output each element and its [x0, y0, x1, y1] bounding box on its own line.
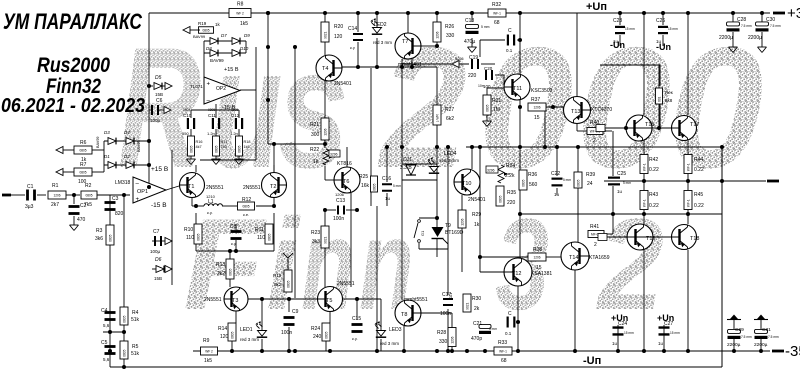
- svg-text:2N5551: 2N5551: [206, 185, 224, 191]
- svg-text:R1: R1: [52, 183, 59, 189]
- svg-text:+Uп: +Uп: [586, 1, 607, 13]
- svg-text:R19: R19: [198, 21, 207, 26]
- svg-text:0805: 0805: [324, 331, 328, 338]
- svg-text:5,6: 5,6: [103, 323, 110, 328]
- svg-text:15: 15: [536, 265, 542, 271]
- svg-text:R5: R5: [132, 344, 139, 350]
- svg-text:D4: D4: [124, 130, 130, 135]
- svg-text:15: 15: [534, 115, 540, 121]
- svg-text:WF-1: WF-1: [493, 12, 501, 16]
- svg-text:L-WR: L-WR: [435, 113, 439, 122]
- svg-text:0805: 0805: [122, 315, 126, 322]
- svg-text:Rек: Rек: [665, 90, 673, 95]
- svg-text:5 mm: 5 mm: [623, 181, 631, 185]
- svg-text:2k: 2k: [474, 306, 480, 312]
- svg-text:2200µ: 2200µ: [754, 342, 768, 348]
- svg-text:2N5401: 2N5401: [468, 197, 486, 203]
- svg-text:1u: 1u: [617, 189, 623, 194]
- svg-text:2k7: 2k7: [51, 202, 59, 208]
- svg-text:KSA1381: KSA1381: [531, 271, 552, 277]
- svg-text:750: 750: [221, 145, 227, 149]
- svg-text:WF-1: WF-1: [686, 163, 690, 171]
- svg-text:i: i: [266, 192, 301, 337]
- svg-text:OP1: OP1: [137, 189, 148, 195]
- svg-text:D7: D7: [221, 33, 227, 38]
- svg-text:300: 300: [311, 132, 320, 138]
- svg-text:7.5 mm: 7.5 mm: [741, 24, 752, 28]
- svg-text:2k2: 2k2: [217, 271, 225, 277]
- svg-text:C23: C23: [613, 18, 622, 24]
- svg-text:T6: T6: [343, 179, 349, 185]
- svg-text:0805: 0805: [228, 268, 232, 275]
- svg-text:red 3 mm: red 3 mm: [373, 40, 392, 45]
- svg-text:1206: 1206: [533, 256, 540, 260]
- svg-text:WF-1: WF-1: [642, 163, 646, 171]
- svg-text:0805: 0805: [521, 179, 525, 186]
- svg-text:R33: R33: [498, 340, 507, 346]
- svg-text:6k2: 6k2: [446, 116, 454, 122]
- svg-text:-15 В: -15 В: [151, 202, 167, 209]
- svg-text:T5: T5: [326, 298, 332, 304]
- svg-text:R43: R43: [649, 192, 658, 198]
- svg-text:D6: D6: [155, 257, 162, 263]
- svg-text:R42: R42: [649, 157, 658, 163]
- svg-text:T12: T12: [512, 271, 521, 277]
- svg-text:1206: 1206: [435, 31, 439, 38]
- svg-text:-Uп: -Uп: [583, 355, 601, 367]
- svg-text:R41: R41: [590, 224, 599, 230]
- svg-text:T13: T13: [571, 109, 580, 115]
- svg-text:0805: 0805: [576, 179, 580, 186]
- svg-text:WF 2: WF 2: [205, 350, 213, 354]
- svg-text:R3: R3: [96, 228, 103, 234]
- svg-text:0805: 0805: [189, 145, 193, 152]
- svg-text:D10: D10: [240, 46, 249, 51]
- svg-text:C29: C29: [735, 327, 744, 333]
- svg-text:5 mm: 5 mm: [481, 25, 490, 29]
- svg-text:1k: 1k: [474, 222, 480, 228]
- svg-text:1206: 1206: [53, 194, 60, 198]
- svg-text:C1: C1: [27, 184, 34, 190]
- svg-text:2N5551: 2N5551: [337, 281, 355, 287]
- svg-text:120: 120: [220, 334, 229, 340]
- svg-text:10н: 10н: [478, 84, 484, 88]
- svg-text:C31: C31: [762, 327, 771, 333]
- svg-text:KTC4370: KTC4370: [591, 107, 612, 113]
- svg-text:C13: C13: [336, 198, 345, 204]
- svg-text:R26: R26: [445, 24, 454, 30]
- svg-text:550: 550: [182, 131, 189, 136]
- svg-text:100n: 100n: [281, 330, 292, 336]
- svg-text:C18: C18: [465, 18, 474, 24]
- svg-text:5,6: 5,6: [103, 357, 110, 362]
- svg-text:R18: R18: [244, 140, 251, 144]
- svg-text:0805: 0805: [267, 233, 271, 240]
- svg-text:100n: 100n: [440, 311, 451, 317]
- svg-text:WF-1: WF-1: [686, 199, 690, 207]
- svg-text:D2: D2: [124, 154, 130, 159]
- svg-text:к.у: к.у: [231, 241, 236, 246]
- svg-text:R17: R17: [221, 140, 228, 144]
- svg-text:0.1: 0.1: [505, 331, 512, 336]
- svg-text:R15: R15: [273, 273, 282, 278]
- svg-text:T7: T7: [402, 39, 408, 45]
- svg-text:C4: C4: [101, 308, 108, 314]
- svg-text:R16: R16: [196, 140, 203, 144]
- svg-text:1206: 1206: [335, 192, 345, 197]
- svg-text:560: 560: [529, 182, 538, 188]
- svg-text:C15: C15: [352, 316, 361, 322]
- svg-text:0805: 0805: [372, 183, 376, 190]
- svg-text:C21: C21: [473, 321, 482, 327]
- svg-text:1210: 1210: [206, 194, 216, 199]
- svg-text:R11: R11: [255, 227, 264, 233]
- svg-text:TL071: TL071: [190, 84, 203, 89]
- svg-text:470: 470: [77, 217, 86, 223]
- svg-text:G1: G1: [420, 230, 425, 236]
- svg-text:15 mm: 15 mm: [624, 331, 634, 335]
- svg-text:0805: 0805: [214, 145, 218, 152]
- svg-text:R39: R39: [586, 172, 595, 178]
- svg-text:C12: C12: [231, 113, 240, 118]
- svg-text:0805: 0805: [237, 145, 241, 152]
- svg-text:к.у.: к.у.: [352, 336, 358, 341]
- svg-text:C3: C3: [112, 196, 119, 202]
- svg-text:801: 801: [657, 96, 661, 102]
- svg-text:9021: 9021: [323, 236, 327, 243]
- svg-text:T9: T9: [445, 223, 451, 229]
- svg-text:C10: C10: [183, 113, 192, 118]
- svg-text:R6: R6: [80, 140, 87, 146]
- svg-text:C24: C24: [618, 321, 627, 327]
- svg-text:R4: R4: [132, 310, 139, 316]
- svg-text:24: 24: [587, 181, 593, 187]
- svg-text:C7: C7: [153, 229, 160, 235]
- svg-text:15 mm: 15 mm: [625, 27, 635, 31]
- svg-text:3µ3: 3µ3: [25, 204, 34, 210]
- svg-text:0805: 0805: [286, 280, 290, 287]
- svg-text:4k7: 4k7: [196, 145, 202, 149]
- svg-text:R35: R35: [507, 190, 516, 196]
- svg-text:110: 110: [257, 235, 265, 241]
- svg-text:5 mm: 5 mm: [489, 327, 497, 331]
- svg-text:0805: 0805: [85, 194, 92, 198]
- svg-text:1206: 1206: [460, 218, 464, 225]
- svg-text:9021: 9021: [449, 293, 453, 300]
- svg-text:0805: 0805: [79, 171, 86, 175]
- svg-text:C9: C9: [292, 309, 299, 315]
- svg-text:к.у.: к.у.: [207, 210, 213, 215]
- svg-text:R44: R44: [694, 157, 703, 163]
- svg-text:3.3 В: 3.3 В: [400, 165, 412, 171]
- svg-text:3296: 3296: [330, 153, 338, 157]
- svg-text:R14: R14: [218, 326, 227, 332]
- svg-text:R34: R34: [506, 163, 515, 169]
- svg-text:KSC3503: KSC3503: [531, 88, 553, 94]
- svg-text:R38: R38: [533, 247, 542, 253]
- svg-text:R7: R7: [80, 162, 87, 168]
- svg-text:-Un: -Un: [610, 40, 625, 50]
- svg-text:820: 820: [115, 211, 124, 217]
- svg-text:2N5551: 2N5551: [204, 297, 222, 303]
- svg-text:470µ: 470µ: [464, 39, 475, 45]
- svg-text:100: 100: [78, 179, 87, 185]
- svg-text:R21: R21: [310, 122, 319, 128]
- svg-text:LED3: LED3: [389, 327, 402, 333]
- svg-text:BAV99: BAV99: [210, 58, 224, 63]
- svg-text:220: 220: [468, 73, 477, 79]
- svg-text:OP2: OP2: [216, 86, 226, 92]
- svg-text:15B: 15B: [155, 92, 163, 97]
- svg-text:1u: 1u: [658, 341, 664, 346]
- svg-text:1u: 1u: [612, 341, 618, 346]
- svg-text:R12: R12: [242, 197, 251, 203]
- svg-text:7.5 mm: 7.5 mm: [768, 335, 779, 339]
- svg-text:T2: T2: [270, 184, 276, 190]
- svg-text:120: 120: [334, 34, 343, 40]
- svg-text:WF-1: WF-1: [499, 350, 507, 354]
- svg-text:9021: 9021: [465, 302, 469, 309]
- svg-text:R36: R36: [528, 172, 537, 178]
- svg-text:3296: 3296: [487, 169, 495, 173]
- svg-text:C5: C5: [101, 340, 108, 346]
- svg-text:7.5 mm: 7.5 mm: [741, 335, 752, 339]
- svg-text:+: +: [136, 197, 140, 203]
- svg-text:1k5: 1k5: [204, 358, 212, 364]
- svg-text:C26: C26: [656, 18, 665, 24]
- svg-text:C2: C2: [80, 203, 87, 209]
- svg-text:220: 220: [507, 200, 516, 206]
- svg-text:1k: 1k: [215, 22, 221, 27]
- svg-text:C30: C30: [766, 17, 775, 23]
- svg-text:C: C: [508, 28, 512, 34]
- svg-text:16k: 16k: [361, 183, 370, 189]
- svg-text:WF-1: WF-1: [642, 199, 646, 207]
- svg-text:C25: C25: [617, 171, 626, 177]
- svg-text:9021: 9021: [323, 31, 327, 38]
- svg-text:T10: T10: [462, 181, 471, 187]
- svg-text:C20: C20: [484, 66, 493, 71]
- svg-text:R23: R23: [311, 230, 320, 236]
- svg-text:0.1: 0.1: [506, 48, 513, 53]
- svg-text:C28: C28: [737, 17, 746, 23]
- svg-text:D8: D8: [206, 46, 212, 51]
- svg-text:68: 68: [494, 20, 500, 26]
- svg-text:R25: R25: [359, 174, 368, 180]
- svg-text:R32: R32: [492, 2, 501, 8]
- svg-text:1k5: 1k5: [240, 21, 248, 27]
- svg-text:15 mm: 15 mm: [668, 27, 678, 31]
- svg-text:2N5551: 2N5551: [243, 185, 261, 191]
- svg-text:n: n: [301, 191, 355, 337]
- svg-text:0805: 0805: [231, 108, 238, 112]
- svg-text:УМ ПАРАЛЛАКС: УМ ПАРАЛЛАКС: [3, 9, 143, 34]
- svg-text:T17: T17: [690, 122, 699, 128]
- svg-text:L1: L1: [208, 199, 214, 205]
- svg-text:C14: C14: [348, 26, 357, 32]
- svg-text:D1: D1: [104, 154, 110, 159]
- svg-text:C: C: [508, 311, 512, 317]
- svg-text:⇅206: ⇅206: [455, 57, 464, 61]
- svg-text:-Un: -Un: [656, 42, 671, 52]
- svg-text:R9: R9: [203, 338, 210, 344]
- svg-text:2.2k: 2.2k: [505, 173, 515, 179]
- svg-text:+15 В: +15 В: [151, 166, 168, 173]
- svg-text:100µ: 100µ: [150, 118, 161, 123]
- svg-text:0.22: 0.22: [694, 203, 704, 209]
- svg-text:C19: C19: [469, 55, 478, 61]
- svg-text:R45: R45: [694, 192, 703, 198]
- svg-text:0805: 0805: [79, 149, 86, 153]
- svg-text:240: 240: [313, 334, 322, 340]
- svg-text:R27: R27: [445, 107, 454, 113]
- svg-text:68: 68: [501, 358, 507, 364]
- svg-text:R30: R30: [472, 296, 481, 302]
- svg-text:0.22: 0.22: [649, 203, 659, 209]
- svg-text:330: 330: [439, 339, 448, 345]
- svg-text:D3: D3: [104, 130, 110, 135]
- svg-text:0805: 0805: [108, 234, 112, 241]
- svg-text:mmbt5551: mmbt5551: [404, 297, 428, 303]
- svg-text:0805: 0805: [242, 205, 249, 209]
- svg-text:+: +: [207, 82, 211, 88]
- svg-text:T1: T1: [188, 184, 194, 190]
- svg-text:+15 В: +15 В: [224, 67, 239, 73]
- svg-text:T14: T14: [569, 255, 578, 261]
- svg-text:R37: R37: [531, 97, 540, 103]
- svg-text:D11: D11: [403, 157, 412, 163]
- svg-text:R20: R20: [334, 24, 343, 30]
- svg-text:C6: C6: [156, 98, 163, 104]
- svg-text:51k: 51k: [131, 317, 140, 323]
- svg-text:T18: T18: [690, 236, 699, 242]
- svg-text:0805: 0805: [122, 349, 126, 356]
- svg-text:Rus2000: Rus2000: [37, 54, 110, 77]
- svg-text:3k6: 3k6: [95, 236, 103, 242]
- svg-text:06.2021 - 02.2023: 06.2021 - 02.2023: [1, 95, 145, 117]
- svg-text:T8: T8: [401, 312, 407, 318]
- svg-text:5 mm: 5 mm: [563, 178, 571, 182]
- svg-text:0805: 0805: [196, 233, 200, 240]
- svg-text:15 mm: 15 mm: [670, 331, 680, 335]
- svg-text:100µ: 100µ: [150, 249, 161, 254]
- svg-text:BAV99: BAV99: [193, 34, 206, 39]
- svg-text:R10: R10: [184, 227, 193, 233]
- svg-text:к.у: к.у: [350, 45, 355, 50]
- svg-text:2: 2: [594, 242, 597, 248]
- svg-text:1k5: 1k5: [244, 145, 250, 149]
- svg-text:C27: C27: [664, 321, 673, 327]
- svg-text:2: 2: [593, 138, 596, 144]
- svg-text:red 3 mm: red 3 mm: [380, 341, 399, 346]
- svg-text:0805: 0805: [498, 195, 502, 202]
- svg-text:3k3: 3k3: [312, 239, 320, 245]
- svg-text:KT816: KT816: [337, 161, 352, 167]
- svg-text:BT169D: BT169D: [445, 230, 464, 236]
- svg-text:BAV99: BAV99: [137, 140, 141, 152]
- svg-text:T15: T15: [645, 122, 654, 128]
- svg-text:R24: R24: [311, 326, 320, 332]
- svg-text:T4: T4: [322, 66, 328, 72]
- svg-text:0805: 0805: [208, 108, 215, 112]
- svg-text:-35: -35: [785, 343, 800, 360]
- svg-text:7.5 mm: 7.5 mm: [770, 24, 781, 28]
- svg-text:1.2н: 1.2н: [230, 131, 238, 136]
- svg-text:2200µ: 2200µ: [727, 342, 741, 348]
- svg-text:R31: R31: [492, 98, 501, 104]
- svg-text:0.22: 0.22: [649, 167, 659, 173]
- svg-text:2200µ: 2200µ: [748, 35, 762, 41]
- svg-text:BAV99: BAV99: [96, 136, 100, 148]
- svg-text:1u: 1u: [554, 192, 560, 197]
- svg-text:1206: 1206: [533, 106, 540, 110]
- svg-text:T11: T11: [513, 86, 522, 92]
- svg-text:D5: D5: [155, 75, 162, 81]
- svg-text:LM318: LM318: [115, 180, 131, 186]
- svg-text:1u: 1u: [385, 196, 391, 201]
- svg-text:15B: 15B: [154, 276, 162, 281]
- svg-text:6k8: 6k8: [665, 98, 673, 103]
- svg-text:1206: 1206: [323, 128, 327, 135]
- svg-text:1.2н: 1.2н: [207, 131, 215, 136]
- svg-text:0805: 0805: [230, 331, 234, 338]
- svg-text:1206: 1206: [450, 336, 454, 343]
- svg-text:R28: R28: [437, 330, 446, 336]
- svg-text:C11: C11: [208, 113, 216, 118]
- svg-text:LED1: LED1: [240, 327, 253, 333]
- svg-text:LED4: LED4: [444, 151, 457, 157]
- svg-text:LED2: LED2: [374, 22, 387, 28]
- svg-text:1M: 1M: [493, 107, 500, 113]
- svg-text:0805: 0805: [485, 104, 489, 111]
- svg-text:8k2: 8k2: [274, 282, 282, 287]
- svg-text:C16: C16: [382, 176, 391, 182]
- svg-text:R13: R13: [216, 262, 225, 268]
- svg-text:KTA1659: KTA1659: [589, 255, 610, 261]
- svg-text:110: 110: [186, 235, 194, 241]
- svg-text:2N5401: 2N5401: [334, 81, 352, 87]
- svg-text:1k: 1k: [313, 159, 319, 165]
- svg-text:WF 2: WF 2: [236, 12, 244, 16]
- svg-text:red 3 mm: red 3 mm: [440, 158, 459, 163]
- svg-text:5 mm: 5 mm: [393, 184, 401, 188]
- svg-text:T3: T3: [232, 298, 238, 304]
- svg-text:R8: R8: [237, 2, 244, 8]
- svg-text:+35: +35: [787, 5, 800, 22]
- svg-text:0.22: 0.22: [694, 167, 704, 173]
- svg-text:0805: 0805: [183, 108, 190, 112]
- svg-text:51k: 51k: [131, 351, 140, 357]
- svg-text:330: 330: [446, 33, 455, 39]
- svg-text:C22: C22: [551, 171, 560, 177]
- svg-text:100n: 100n: [333, 216, 344, 222]
- svg-text:R22: R22: [310, 147, 319, 153]
- svg-text:к.е.: к.е.: [243, 212, 249, 217]
- svg-text:mmbt6401: mmbt6401: [398, 62, 422, 68]
- svg-text:0805: 0805: [202, 29, 209, 33]
- svg-text:red 3 mm: red 3 mm: [240, 337, 259, 342]
- svg-text:D9: D9: [244, 33, 250, 38]
- svg-text:470p: 470p: [471, 336, 482, 342]
- svg-text:2200µ: 2200µ: [719, 35, 733, 41]
